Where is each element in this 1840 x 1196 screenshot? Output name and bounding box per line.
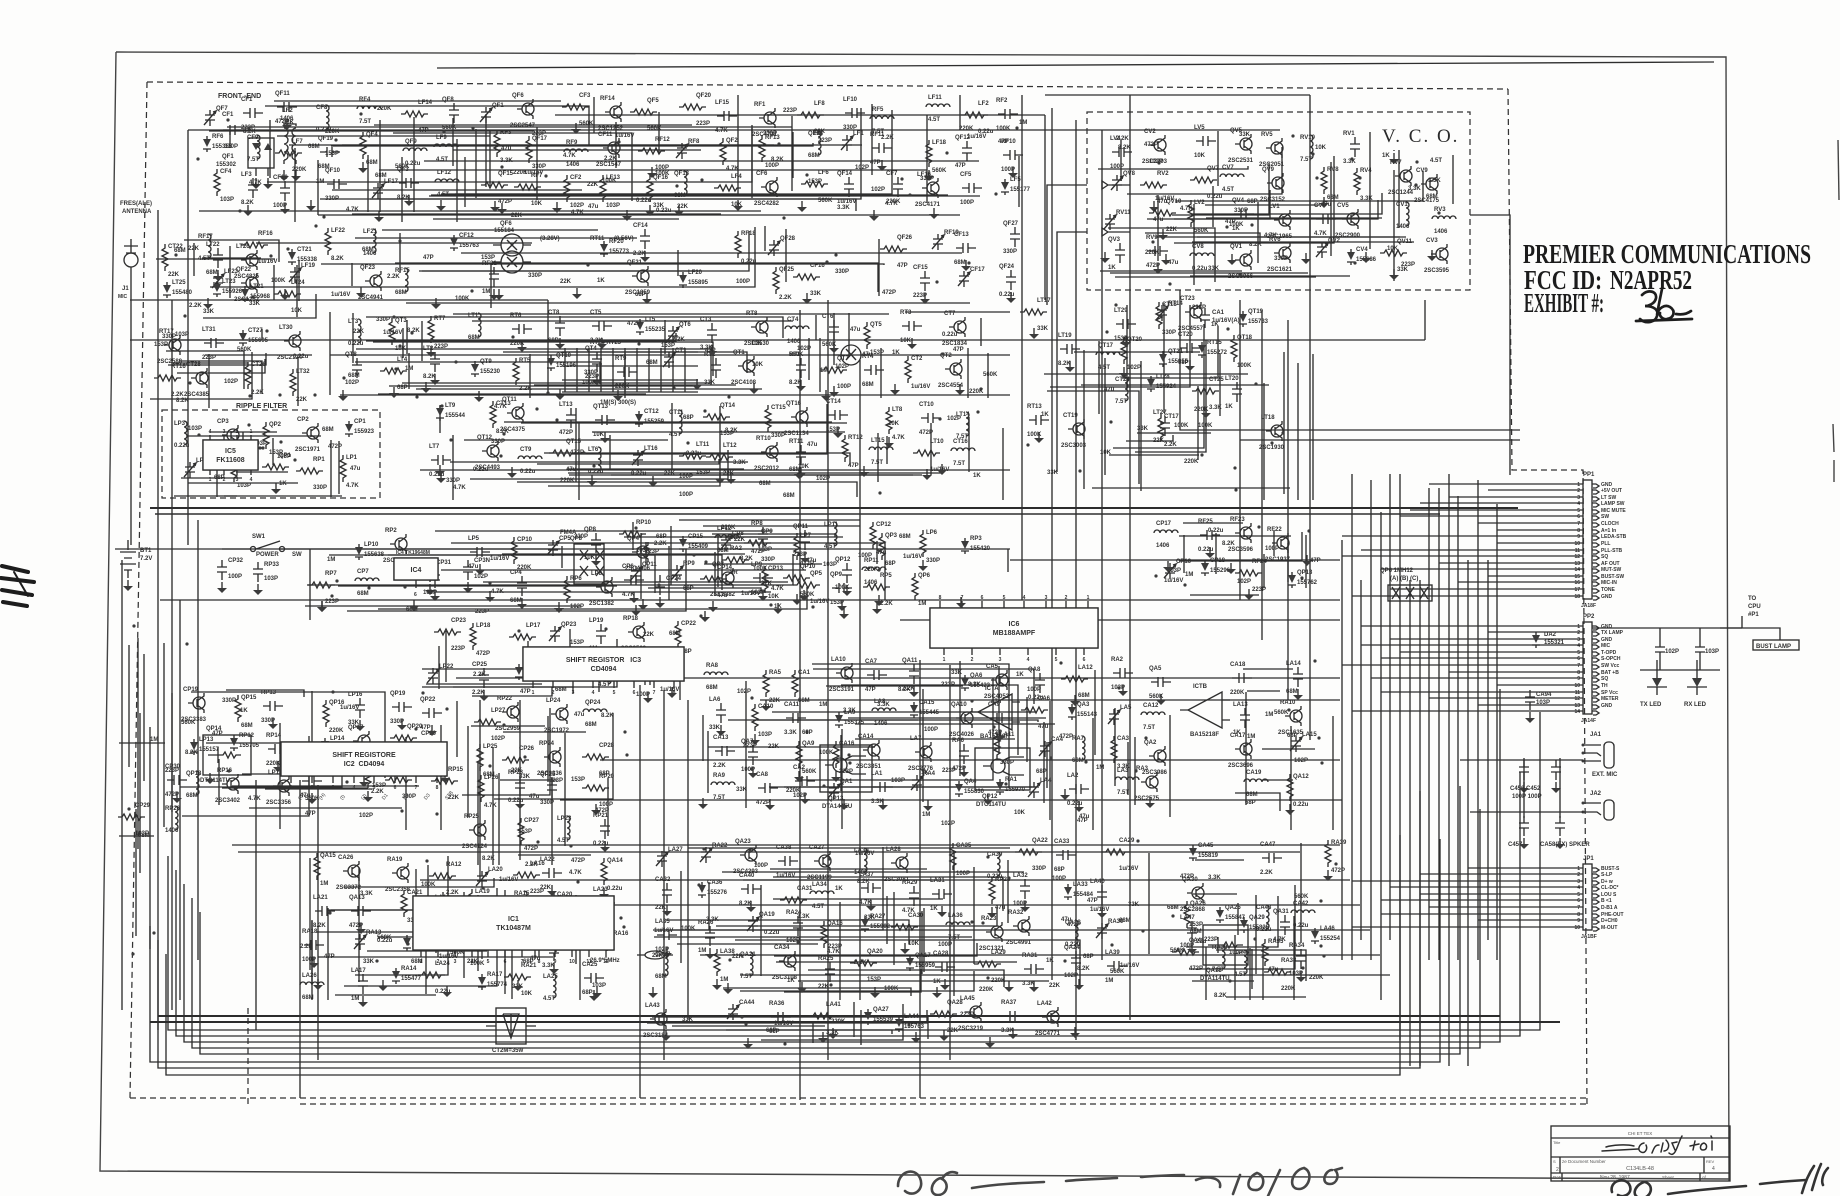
IC IC3 CD4094 face (523, 647, 684, 681)
ground (915, 1032, 917, 1038)
svg-text:M-OUT: M-OUT (1601, 925, 1617, 931)
wire (905, 311, 1010, 313)
svg-text:103P: 103P (188, 426, 202, 432)
wire (1183, 535, 1185, 573)
wire (841, 685, 1018, 755)
resistor QP5 (793, 582, 820, 588)
capacitor CA11 (786, 713, 806, 723)
svg-text:RV10: RV10 (1300, 135, 1316, 141)
wire (1449, 671, 1583, 673)
ground (284, 289, 286, 295)
inductor CT16 (951, 448, 975, 451)
junction (188, 381, 191, 384)
inductor QA18 (1075, 920, 1078, 944)
resistor LP27 (474, 719, 501, 725)
svg-text:2SC3596: 2SC3596 (1228, 547, 1254, 553)
ground (959, 384, 961, 390)
svg-text:1M: 1M (1247, 734, 1255, 740)
svg-text:4.7K: 4.7K (484, 803, 497, 809)
ground (719, 473, 721, 479)
capacitor QA31 (1280, 915, 1290, 935)
svg-text:102P: 102P (570, 203, 584, 209)
svg-text:LA21: LA21 (313, 895, 328, 901)
svg-text:560K: 560K (579, 121, 594, 127)
ground (769, 799, 771, 805)
svg-text:CA47: CA47 (1260, 842, 1276, 848)
inductor LT6 (598, 447, 601, 471)
wire (776, 961, 1017, 963)
wire (808, 970, 1004, 987)
inductor CT11 (679, 410, 682, 434)
ground (963, 766, 965, 772)
svg-text:QA20: QA20 (867, 949, 883, 955)
capacitor LA21 (315, 906, 335, 916)
svg-text:RF14: RF14 (600, 96, 615, 102)
wire (757, 719, 918, 721)
wire (472, 687, 552, 696)
ground (439, 465, 441, 471)
wire (1398, 134, 1400, 228)
svg-text:22K: 22K (587, 182, 599, 188)
svg-text:CT2M=35w: CT2M=35w (492, 1048, 524, 1054)
svg-text:2SC3986: 2SC3986 (1142, 770, 1168, 776)
wire (143, 654, 145, 781)
wire (900, 619, 1340, 621)
svg-text:22K: 22K (511, 213, 523, 219)
capacitor QP25 (547, 778, 557, 798)
svg-text:4.7K: 4.7K (571, 210, 584, 216)
svg-text:1u/16V: 1u/16V (524, 170, 543, 176)
svg-text:330P: 330P (528, 273, 542, 279)
svg-text:IC1: IC1 (508, 916, 519, 923)
svg-text:CT11: CT11 (669, 410, 684, 416)
wire (130, 299, 548, 301)
ground (1365, 252, 1367, 258)
svg-text:2.2K: 2.2K (881, 135, 894, 141)
svg-text:LF9: LF9 (436, 135, 447, 141)
inductor LA3 (1115, 777, 1139, 780)
resistor RP5 (863, 584, 890, 590)
inductor QP24 (583, 709, 607, 712)
wire (600, 759, 1340, 761)
ground (876, 603, 878, 609)
svg-text:2SC2531: 2SC2531 (1228, 158, 1254, 164)
svg-text:22K: 22K (664, 471, 676, 477)
svg-text:SW: SW (1601, 514, 1609, 520)
ground (363, 776, 365, 782)
svg-text:CA43: CA43 (1256, 905, 1272, 911)
inductor CT4 (785, 326, 809, 329)
junction (703, 409, 706, 412)
svg-text:1406: 1406 (1396, 224, 1410, 230)
svg-text:2SC4825: 2SC4825 (234, 274, 260, 280)
wire (1175, 171, 1423, 201)
svg-text:22K: 22K (511, 768, 523, 774)
wire (479, 700, 481, 880)
junction (1415, 160, 1418, 163)
ground (647, 692, 649, 698)
resistor LF8 (797, 112, 824, 118)
svg-text:RP24: RP24 (539, 741, 555, 747)
svg-text:560K: 560K (647, 126, 662, 132)
wire (1145, 233, 1260, 244)
svg-text:RA16: RA16 (613, 931, 629, 937)
svg-text:7.5T: 7.5T (247, 157, 259, 163)
capacitor RA26 (705, 926, 715, 946)
junction (634, 526, 637, 529)
svg-text:JA18F: JA18F (1581, 603, 1596, 609)
svg-text:IC6: IC6 (1009, 621, 1020, 628)
svg-text:330P: 330P (1234, 208, 1248, 214)
svg-text:7.5T: 7.5T (359, 119, 371, 125)
diode RA1 (996, 779, 1004, 795)
svg-text:10K: 10K (768, 594, 780, 600)
svg-text:103P: 103P (264, 576, 278, 582)
svg-text:CA1: CA1 (798, 670, 811, 676)
svg-text:CP10: CP10 (517, 537, 533, 543)
svg-text:47P: 47P (212, 731, 223, 737)
svg-text:4.7K: 4.7K (494, 404, 507, 410)
ground (494, 201, 496, 207)
wire (1429, 483, 1583, 485)
block QP8 FM4A (574, 544, 604, 584)
svg-text:QA29: QA29 (1249, 915, 1265, 921)
resistor LA24 (418, 972, 445, 978)
diode LF5 (1001, 179, 1009, 195)
svg-text:LP26: LP26 (484, 775, 499, 781)
svg-text:LP5: LP5 (468, 536, 480, 542)
svg-text:68M: 68M (1246, 792, 1258, 798)
wire (424, 160, 979, 162)
svg-text:QF23: QF23 (360, 265, 376, 271)
resistor R1 (722, 557, 749, 563)
wire (1046, 742, 1048, 788)
capacitor CA28 (935, 962, 955, 972)
wire (1361, 644, 1583, 646)
svg-text:4.5T: 4.5T (1222, 187, 1234, 193)
svg-text:220K: 220K (560, 478, 575, 484)
resistor QV10 (1149, 210, 1176, 216)
capacitor CA9 (990, 713, 1010, 723)
transistor RV5 (1271, 142, 1283, 154)
transistor LV1 (1279, 214, 1291, 226)
wire (192, 809, 1480, 1048)
wire (670, 526, 672, 585)
wire (420, 469, 1010, 471)
wire (1007, 549, 1009, 572)
svg-text:102P: 102P (345, 380, 359, 386)
ground (575, 123, 577, 129)
svg-text:220K: 220K (615, 384, 630, 390)
wire (671, 403, 673, 470)
svg-text:5: 5 (487, 959, 490, 965)
svg-text:47u: 47u (807, 442, 818, 448)
diode RA27 (861, 916, 869, 932)
svg-text:155695: 155695 (248, 338, 269, 344)
svg-text:220K: 220K (329, 728, 344, 734)
wire (959, 661, 961, 776)
diode CT27 (239, 330, 247, 346)
svg-text:CA36: CA36 (707, 880, 723, 886)
diode QT10 (547, 355, 555, 371)
wire (367, 155, 369, 212)
resistor RP10 (619, 531, 646, 537)
svg-text:LV5: LV5 (1194, 125, 1205, 131)
junction (394, 367, 397, 370)
trimmer RF19 (932, 234, 944, 250)
resistor CP26 (502, 757, 529, 763)
wire (366, 333, 676, 341)
junction (592, 464, 595, 467)
svg-text:1M: 1M (150, 737, 158, 743)
wire (1045, 94, 1310, 96)
wire (1098, 166, 1248, 169)
wire (437, 62, 1714, 68)
junction (637, 342, 640, 345)
IC IC4 TK19648M (394, 558, 438, 580)
ground (1064, 789, 1066, 795)
svg-text:LF20: LF20 (688, 270, 703, 276)
svg-text:68P: 68P (599, 771, 610, 777)
wire (453, 313, 889, 315)
wire (149, 727, 151, 949)
svg-text:7.5T: 7.5T (1115, 399, 1127, 405)
wire (607, 778, 609, 836)
svg-text:CA8: CA8 (756, 772, 769, 778)
ground (730, 473, 732, 479)
wire (450, 461, 748, 463)
svg-text:2.2K: 2.2K (189, 303, 202, 309)
svg-text:LA26: LA26 (302, 973, 317, 979)
svg-text:QF1: QF1 (222, 154, 234, 160)
wire (1235, 793, 1280, 811)
transistor QT16 (796, 411, 808, 423)
wire (1205, 947, 1207, 1000)
wire (209, 431, 277, 433)
svg-text:47u: 47u (850, 327, 861, 333)
wire (351, 263, 353, 286)
wire (593, 97, 595, 133)
wire (338, 585, 617, 587)
svg-text:RF3: RF3 (500, 130, 512, 136)
wire (344, 888, 497, 986)
transistor LP24 (556, 708, 568, 720)
svg-text:LA23: LA23 (593, 887, 608, 893)
svg-text:68M: 68M (1119, 918, 1131, 924)
wire (329, 312, 331, 395)
junction (1358, 176, 1361, 179)
wire (1300, 843, 1302, 943)
resistor RA5 (763, 670, 769, 697)
transistor QT12 (487, 445, 499, 457)
ground (286, 119, 288, 125)
svg-text:1u/16V: 1u/16V (499, 877, 518, 883)
junction (248, 394, 251, 397)
transistor RP22 (507, 706, 519, 718)
junction (1291, 134, 1294, 137)
capacitor RT3 (902, 321, 922, 331)
wire (1206, 217, 1382, 219)
ground (1248, 589, 1250, 595)
svg-text:RF25: RF25 (1198, 519, 1213, 525)
svg-text:QT19: QT19 (1248, 309, 1264, 315)
resistor QP21 (385, 777, 412, 783)
junction (986, 976, 989, 979)
wire (658, 112, 660, 153)
svg-text:330P: 330P (763, 131, 777, 137)
svg-text:1M: 1M (1185, 572, 1193, 578)
ground (556, 202, 558, 208)
svg-text:RX LED: RX LED (1684, 702, 1707, 708)
svg-text:2.2K: 2.2K (854, 960, 867, 966)
svg-text:LP16: LP16 (348, 692, 363, 698)
transistor QV1 (1240, 254, 1252, 266)
svg-text:100P: 100P (1265, 546, 1279, 552)
wire (1352, 880, 1583, 882)
svg-text:155420: 155420 (970, 546, 991, 552)
wire (664, 320, 666, 354)
svg-text:1u/16V: 1u/16V (741, 591, 760, 597)
trimmer RF8 (676, 143, 688, 159)
svg-text:102P: 102P (491, 736, 505, 742)
wire (1193, 204, 1195, 285)
svg-text:CV2: CV2 (1144, 129, 1156, 135)
inductor LA8 (872, 708, 896, 711)
svg-text:33K: 33K (682, 1017, 694, 1023)
svg-text:102P: 102P (570, 604, 584, 610)
wire (773, 898, 943, 900)
svg-text:10: 10 (1574, 683, 1580, 689)
wire (429, 195, 980, 197)
diode QP13 (1288, 572, 1296, 588)
junction (825, 260, 828, 263)
svg-text:100P: 100P (960, 200, 974, 206)
resistor CF16 (793, 274, 820, 280)
wire (229, 246, 231, 298)
wire (547, 300, 549, 395)
diode CA36 (698, 882, 706, 898)
wire (743, 879, 941, 881)
svg-text:RT13: RT13 (1027, 404, 1042, 410)
svg-text:4.5T: 4.5T (1098, 365, 1110, 371)
inductor RF9 (564, 149, 588, 152)
wire (799, 310, 801, 1100)
svg-text:4.7K: 4.7K (453, 485, 466, 491)
svg-text:9: 9 (1577, 534, 1580, 540)
IC IC5 FK11608 face (203, 440, 258, 470)
capacitor QP19 (392, 702, 412, 712)
junction (783, 1042, 786, 1045)
svg-text:RF17: RF17 (198, 234, 213, 240)
svg-text:102P: 102P (871, 187, 885, 193)
ground (501, 203, 503, 209)
svg-text:223P: 223P (434, 344, 448, 350)
svg-text:47P: 47P (955, 163, 966, 169)
svg-text:10K: 10K (908, 941, 920, 947)
svg-text:CA7: CA7 (865, 659, 878, 665)
svg-text:MIC-IN: MIC-IN (1601, 580, 1617, 586)
junction (586, 263, 589, 266)
wire (1419, 580, 1421, 1066)
wire (841, 729, 843, 829)
resistor RF12 (638, 148, 665, 154)
resistor RA39 (1325, 840, 1331, 867)
capacitor CF14 (640, 229, 650, 249)
svg-text:4.5T: 4.5T (557, 838, 569, 844)
svg-text:RA17: RA17 (487, 972, 503, 978)
svg-text:2SC1547: 2SC1547 (596, 162, 622, 168)
ground (1305, 253, 1307, 259)
wire (1075, 120, 1077, 1040)
capacitor RA24 (793, 916, 803, 936)
svg-text:#P1: #P1 (1748, 612, 1759, 618)
capacitor RA18 (304, 940, 324, 950)
inductor LF11 (926, 104, 950, 107)
inductor LT3 (358, 319, 361, 343)
ground (642, 599, 644, 605)
svg-text:22K: 22K (723, 471, 735, 477)
wire (1305, 535, 1307, 588)
resistor LT24 (274, 291, 301, 297)
capacitor LA35 (657, 930, 677, 940)
wire (769, 786, 1036, 788)
wire (128, 645, 130, 767)
svg-text:3.3K: 3.3K (1208, 875, 1221, 881)
svg-text:560K: 560K (442, 125, 457, 131)
svg-text:FK11608: FK11608 (216, 457, 245, 464)
ground (595, 555, 597, 561)
wire (464, 439, 668, 441)
wire (1488, 575, 1583, 577)
svg-text:47P: 47P (870, 160, 881, 166)
wire (712, 534, 835, 537)
wire (677, 943, 818, 945)
svg-text:223P: 223P (941, 682, 955, 688)
svg-text:68M: 68M (1167, 905, 1179, 911)
ground (911, 338, 913, 344)
svg-text:2: 2 (1577, 488, 1580, 494)
IC2 pin labels (297, 789, 455, 801)
inductor LA25 (553, 974, 556, 998)
svg-text:3.3K: 3.3K (1343, 159, 1356, 165)
svg-text:2SC3696: 2SC3696 (1228, 763, 1254, 769)
svg-text:68M: 68M (646, 360, 658, 366)
junction (569, 844, 572, 847)
svg-text:2.2K: 2.2K (387, 274, 400, 280)
wire (402, 328, 404, 358)
svg-text:2SC2588: 2SC2588 (157, 359, 183, 365)
inductor RV10 (1310, 135, 1313, 159)
wire (880, 348, 882, 398)
capacitor RF11 (872, 143, 892, 153)
trimmer CP5 (547, 540, 559, 556)
svg-text:SW: SW (292, 552, 302, 558)
wire (1049, 701, 1051, 820)
svg-text:47u: 47u (1153, 217, 1164, 223)
wire thick bus (158, 1015, 1500, 1017)
wire (1193, 893, 1237, 895)
svg-text:CA11: CA11 (784, 702, 800, 708)
wire (561, 546, 563, 568)
svg-text:223P: 223P (783, 108, 797, 114)
svg-text:68M: 68M (954, 260, 966, 266)
svg-text:RF22: RF22 (1267, 527, 1282, 533)
capacitor QF8 (449, 103, 459, 123)
svg-text:LF1: LF1 (853, 131, 864, 137)
resistor LA41 (809, 1013, 836, 1019)
ground (796, 594, 798, 600)
svg-text:1M: 1M (327, 557, 335, 563)
